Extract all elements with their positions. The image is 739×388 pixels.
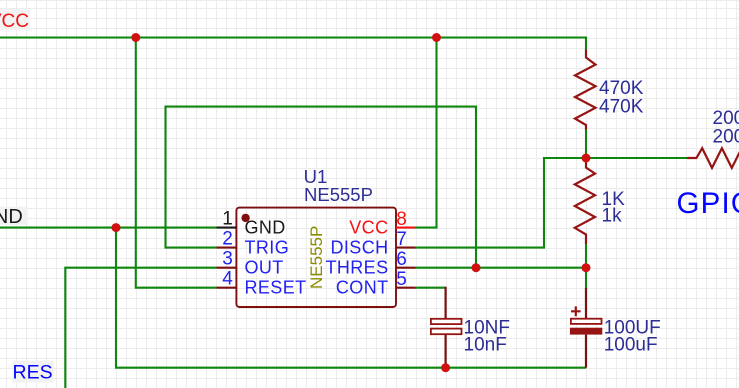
capacitor C 100uF top lead [585, 288, 587, 319]
svg-text:THRES: THRES [325, 258, 388, 278]
resistor R 1K zigzag [575, 160, 595, 244]
wire VCC top rail [0, 38, 586, 51]
capacitor C 10nF top lead [445, 287, 447, 319]
capacitor C 10nF bottom lead [445, 334, 447, 367]
svg-text:NE555P: NE555P [307, 226, 326, 289]
svg-text:5: 5 [396, 269, 407, 290]
svg-text:1: 1 [222, 208, 233, 229]
svg-text:10nF: 10nF [464, 335, 507, 356]
svg-text:OUT: OUT [245, 258, 284, 278]
U1 pin 1 marker dot [241, 214, 249, 222]
U1 pin 7 stub [396, 247, 416, 249]
capacitor C 10nF bottom plate [431, 329, 462, 335]
svg-text:DISCH: DISCH [330, 238, 388, 258]
resistor R 470K zigzag [575, 50, 596, 130]
capacitor C 10nF top plate [431, 319, 462, 324]
junction dot VCC-pin8 [432, 33, 441, 42]
capacitor C 100uF bottom plate (filled) [570, 328, 602, 335]
U1 pin 3 stub [217, 267, 237, 269]
net label RES background [13, 361, 54, 383]
svg-text:TRIG: TRIG [245, 238, 290, 258]
svg-text:VCC: VCC [349, 218, 388, 238]
svg-text:GND: GND [0, 206, 23, 228]
svg-text:2: 2 [222, 229, 233, 250]
capacitor C 100uF plus sign [571, 306, 581, 316]
svg-text:GND: GND [245, 218, 286, 238]
U1 pin 2 stub [217, 247, 237, 249]
wire CONT to C 10nF [416, 287, 446, 289]
svg-text:CONT: CONT [336, 278, 389, 298]
wire VCC drop to RESET (pin 4) [136, 38, 217, 288]
junction dot VCC-RESET [131, 33, 140, 42]
junction dot THRES-divider [582, 263, 591, 272]
wire THRES rail [416, 267, 587, 269]
junction dot divider mid node [582, 154, 591, 163]
capacitor C 100uF top plate [571, 319, 602, 324]
svg-text:NE555P: NE555P [304, 184, 373, 205]
svg-text:3: 3 [222, 249, 233, 270]
resistor R 200 zigzag [687, 148, 739, 168]
U1 pin 6 stub [396, 267, 416, 269]
svg-text:200R: 200R [713, 126, 739, 147]
net label VCC background [0, 9, 30, 30]
svg-text:VCC: VCC [0, 11, 29, 32]
wire GND rail to pin 1 [0, 227, 217, 229]
U1 pin 5 stub [396, 287, 416, 289]
U1 pin 8 stub [396, 227, 415, 229]
svg-text:470K: 470K [599, 96, 644, 117]
svg-text:1k: 1k [602, 206, 623, 227]
wire OUT to RES [65, 268, 216, 388]
junction dot bottom rail C 10nF [441, 363, 450, 372]
wire GND drop and bottom rail [116, 228, 586, 368]
svg-text:RES: RES [13, 362, 53, 384]
wire VCC drop to pin 8 [415, 38, 437, 228]
svg-text:100uF: 100uF [604, 335, 658, 356]
svg-text:RESET: RESET [245, 278, 307, 298]
U1 pin 1 stub [217, 227, 237, 229]
capacitor C 100uF bottom lead [585, 335, 587, 368]
op-amp U1 body NE555P [236, 208, 396, 307]
svg-text:GPIO: GPIO [677, 187, 739, 220]
net label GND background [0, 207, 28, 225]
wire 1K bottom to THRES node [585, 243, 587, 268]
junction dot GND rail [112, 223, 121, 232]
wire node to 200R [586, 157, 688, 159]
svg-text:6: 6 [396, 249, 407, 270]
U1 pin 4 stub [217, 287, 237, 289]
wire TRIG to THRES loop [166, 107, 477, 268]
svg-text:7: 7 [396, 229, 407, 250]
wire 470K bottom to node [585, 129, 587, 159]
wire DISCH to divider [416, 158, 586, 248]
wire node to 100uF [585, 268, 587, 289]
junction dot THRES-loop [472, 263, 481, 272]
svg-text:4: 4 [222, 269, 233, 290]
svg-text:8: 8 [396, 209, 407, 230]
